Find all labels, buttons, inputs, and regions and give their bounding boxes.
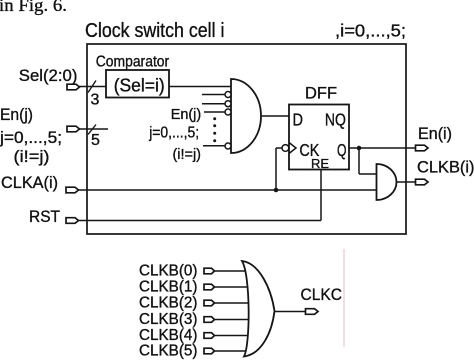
- svg-text:En(j): En(j): [171, 106, 202, 123]
- svg-text:En(j): En(j): [0, 105, 33, 124]
- svg-text:CLKB(1): CLKB(1): [139, 279, 198, 296]
- svg-text:j=0,...,5;: j=0,...,5;: [148, 125, 199, 142]
- svg-text:3: 3: [91, 92, 100, 109]
- svg-text:D: D: [293, 110, 304, 130]
- svg-text:(i!=j): (i!=j): [173, 146, 202, 163]
- svg-text:CLKB(0): CLKB(0): [139, 263, 198, 280]
- svg-text:CLKB(5): CLKB(5): [139, 343, 198, 360]
- svg-text:Clock switch cell i: Clock switch cell i: [85, 20, 225, 42]
- svg-text:CLKC: CLKC: [301, 285, 343, 304]
- svg-text:,i=0,...,5;: ,i=0,...,5;: [335, 21, 406, 41]
- svg-text:NQ: NQ: [325, 110, 346, 130]
- svg-text:CLKB(3): CLKB(3): [139, 311, 198, 328]
- svg-text:CLKB(2): CLKB(2): [139, 295, 198, 312]
- svg-text:(Sel=i): (Sel=i): [114, 76, 165, 96]
- svg-text:5: 5: [91, 132, 100, 149]
- svg-text:j=0,...,5;: j=0,...,5;: [0, 128, 62, 147]
- svg-text:CLKB(4): CLKB(4): [139, 327, 198, 344]
- svg-text:in Fig. 6.: in Fig. 6.: [0, 0, 67, 15]
- svg-text:RE: RE: [311, 156, 329, 171]
- svg-text:En(i): En(i): [418, 124, 452, 143]
- svg-text:CLKB(i): CLKB(i): [417, 158, 474, 177]
- svg-text:DFF: DFF: [305, 84, 337, 103]
- svg-text:(i!=j): (i!=j): [14, 147, 50, 166]
- svg-text:RST: RST: [29, 207, 60, 226]
- svg-text:Q: Q: [337, 140, 347, 160]
- svg-text:Sel(2:0): Sel(2:0): [19, 66, 78, 85]
- svg-text:CLKA(i): CLKA(i): [1, 173, 58, 192]
- svg-text:Comparator: Comparator: [96, 54, 170, 71]
